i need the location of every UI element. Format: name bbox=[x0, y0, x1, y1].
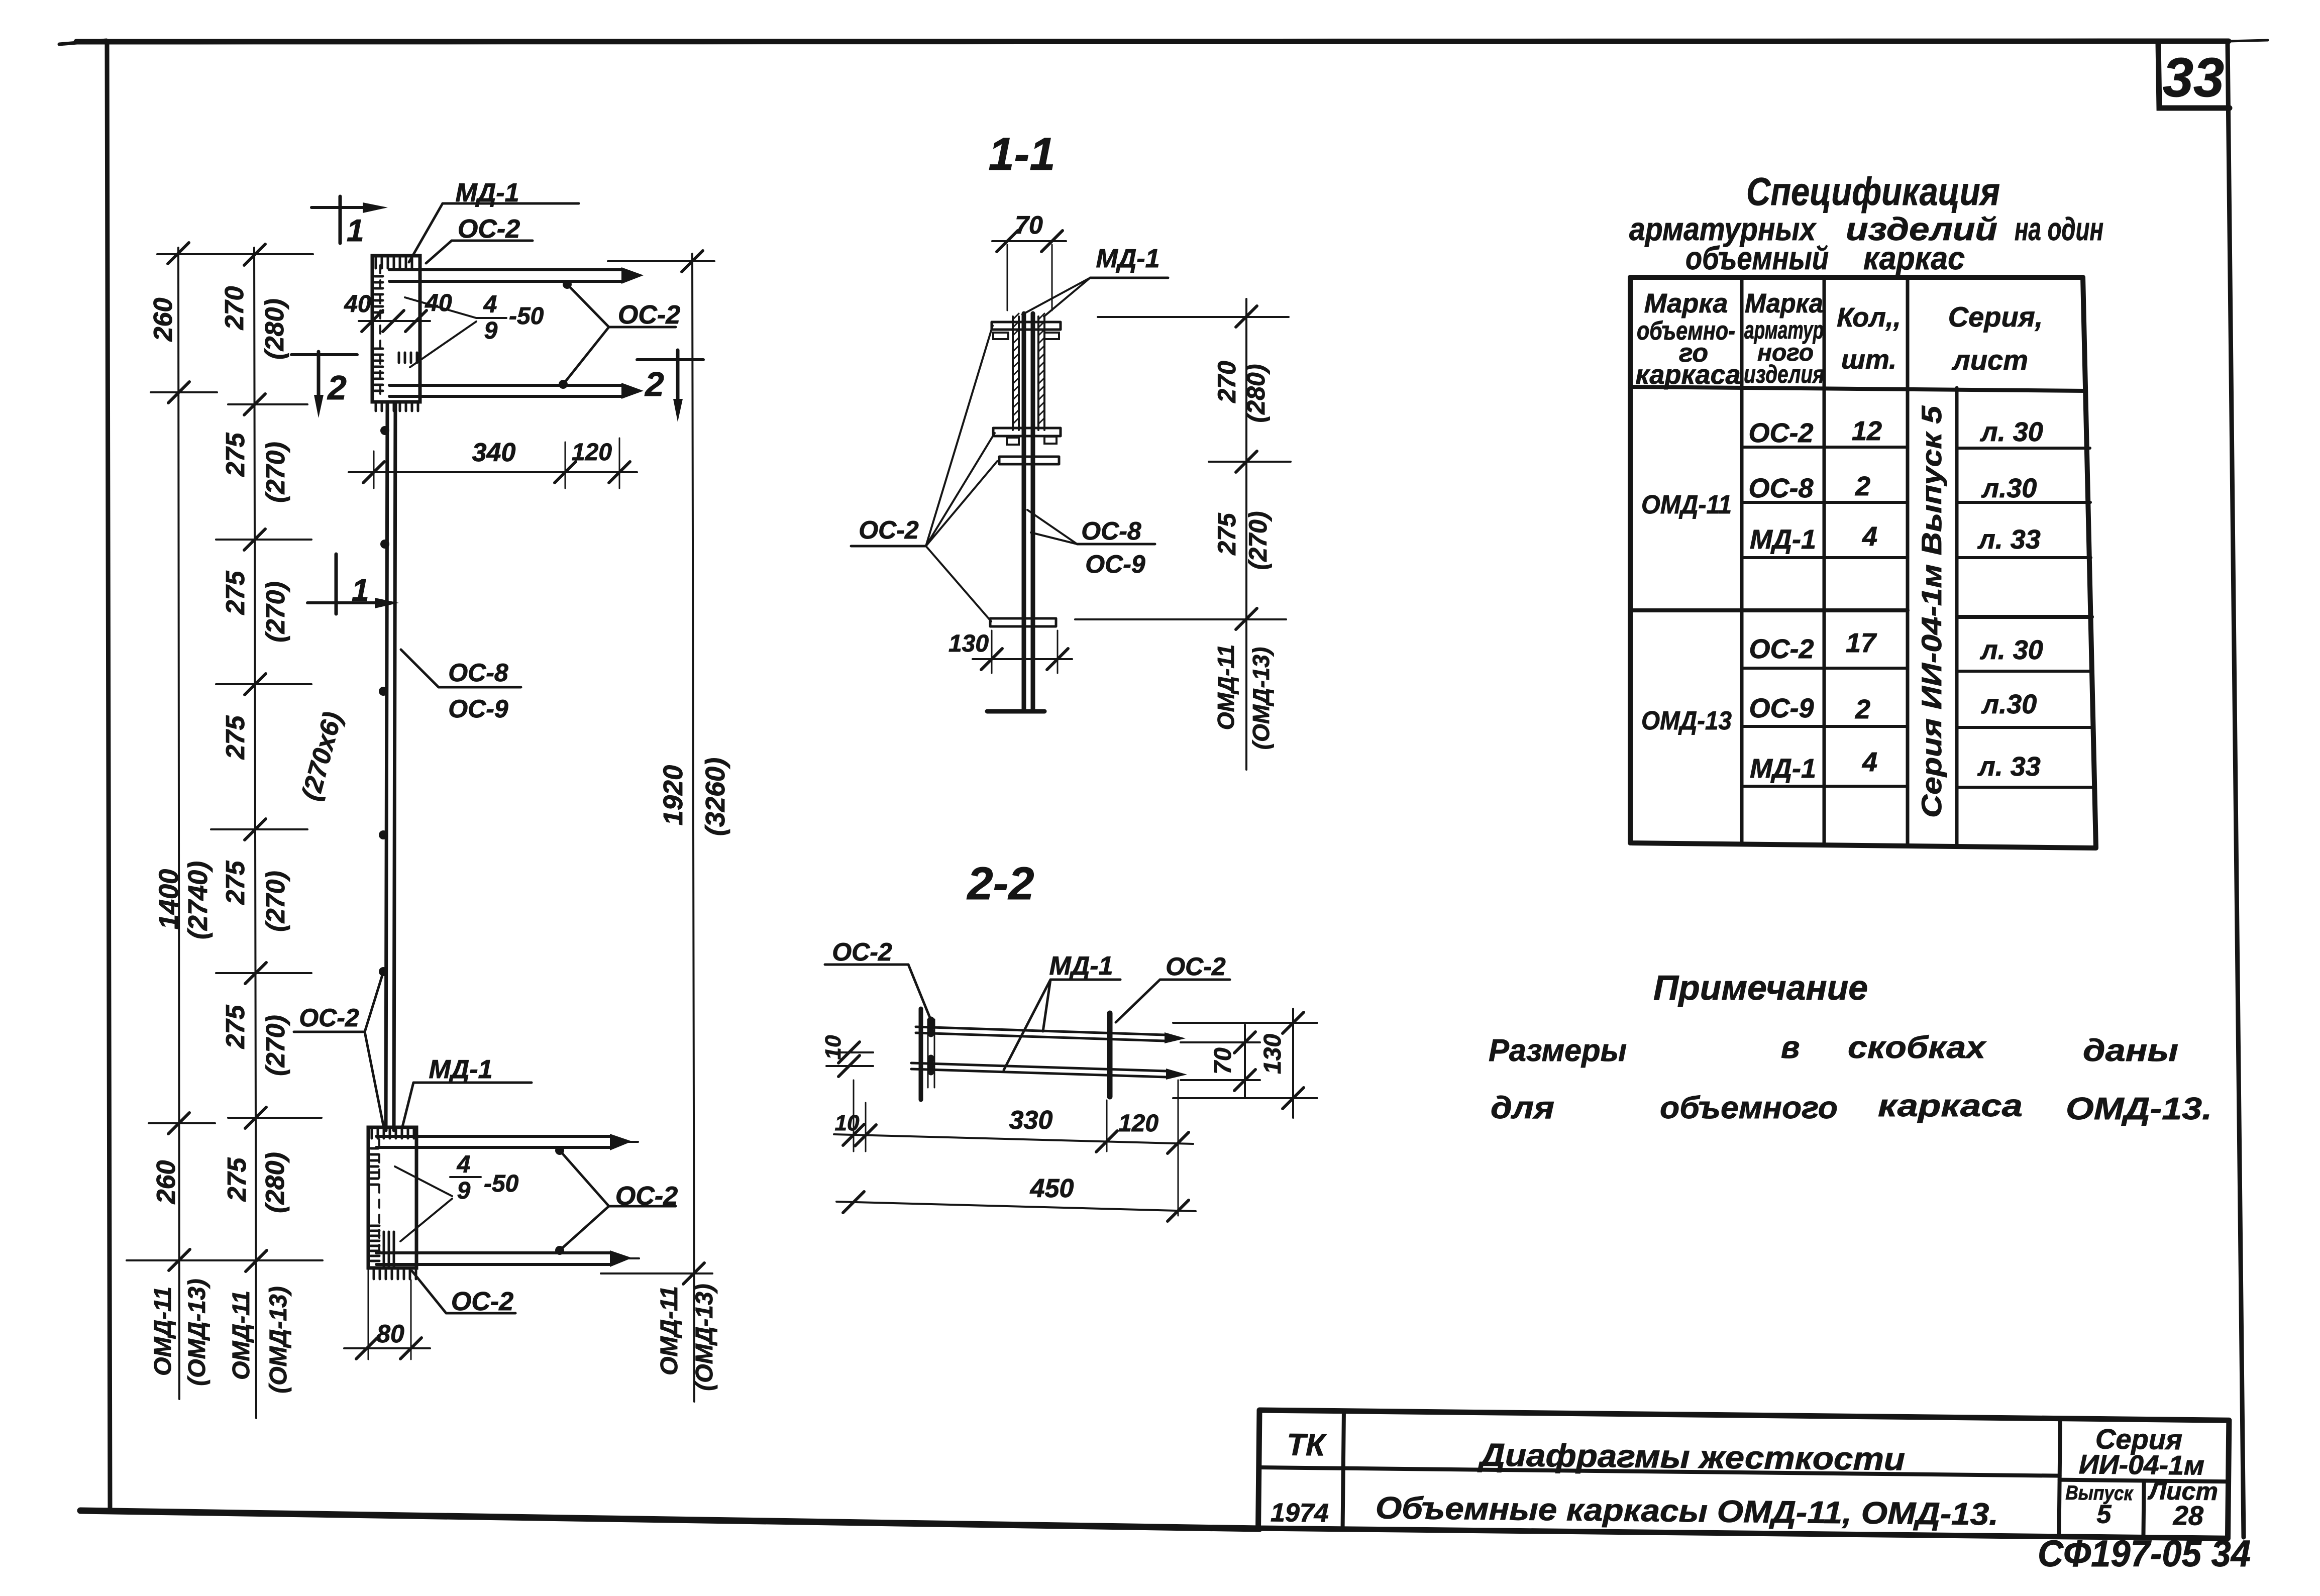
elevation: dimension chain line 2 bbox=[254, 248, 256, 1418]
svg-text:70: 70 bbox=[1210, 1047, 1236, 1075]
dim line 40/40 bbox=[359, 320, 430, 322]
weld hatch below bottom strip bbox=[376, 401, 418, 411]
svg-text:10: 10 bbox=[821, 1035, 846, 1059]
svg-text:120: 120 bbox=[572, 439, 612, 466]
svg-text:ОМД-13.: ОМД-13. bbox=[2066, 1092, 2212, 1126]
svg-text:(ОМД-13): (ОМД-13) bbox=[184, 1279, 210, 1386]
svg-text:2: 2 bbox=[644, 365, 664, 403]
svg-text:(280): (280) bbox=[1242, 364, 1270, 423]
svg-text:ОС-9: ОС-9 bbox=[1085, 550, 1145, 578]
svg-text:объемного: объемного bbox=[1660, 1091, 1838, 1125]
section 1-1 right chain bbox=[1245, 299, 1247, 770]
MD-1 plate right (hatched) bbox=[1038, 316, 1044, 430]
svg-text:1400: 1400 bbox=[154, 869, 184, 929]
top bracket MD-1 channel outline bbox=[372, 256, 420, 402]
title block row dividers bbox=[1259, 1467, 2229, 1481]
svg-text:ОС-2: ОС-2 bbox=[618, 300, 680, 330]
top extension to dim line bbox=[608, 260, 714, 262]
svg-text:ОС-2: ОС-2 bbox=[451, 1287, 513, 1316]
top plate tabs bbox=[993, 333, 1059, 339]
svg-text:2: 2 bbox=[1855, 694, 1870, 724]
section mark 1 top bbox=[339, 196, 342, 243]
svg-text:5: 5 bbox=[2096, 1500, 2112, 1529]
svg-text:1974: 1974 bbox=[1271, 1498, 1329, 1528]
svg-text:330: 330 bbox=[1009, 1106, 1053, 1135]
svg-text:1920: 1920 bbox=[658, 765, 688, 825]
title block verticals bbox=[1343, 1411, 2145, 1538]
section mark 1 lower bbox=[335, 554, 338, 614]
bottom plate bbox=[990, 618, 1056, 626]
spec table column lines bbox=[1742, 277, 1957, 846]
spec table row lines bbox=[1742, 447, 2090, 448]
svg-text:275: 275 bbox=[223, 1157, 252, 1202]
svg-text:40: 40 bbox=[344, 291, 371, 317]
svg-text:ОС-2: ОС-2 bbox=[1166, 952, 1226, 981]
svg-text:шт.: шт. bbox=[1841, 345, 1896, 375]
chain1 tick y504 bbox=[168, 243, 189, 264]
svg-text:л.30: л.30 bbox=[1981, 689, 2037, 719]
svg-text:28: 28 bbox=[2173, 1501, 2204, 1531]
svg-text:л. 30: л. 30 bbox=[1979, 417, 2043, 447]
svg-text:260: 260 bbox=[152, 1160, 181, 1205]
svg-text:4: 4 bbox=[1862, 747, 1877, 777]
svg-text:л. 33: л. 33 bbox=[1977, 524, 2041, 555]
svg-text:ОМД-11: ОМД-11 bbox=[228, 1291, 255, 1380]
svg-text:лист: лист bbox=[1951, 344, 2028, 376]
svg-text:(3260): (3260) bbox=[700, 758, 730, 836]
svg-text:ОС-8: ОС-8 bbox=[1748, 473, 1813, 503]
overall dim line 1920 bbox=[692, 254, 694, 1402]
svg-text:275: 275 bbox=[221, 861, 250, 905]
svg-text:9: 9 bbox=[484, 317, 498, 344]
svg-text:МД-1: МД-1 bbox=[1096, 244, 1159, 273]
svg-text:л.30: л.30 bbox=[1981, 473, 2037, 503]
bottom extension line bbox=[127, 1259, 323, 1261]
svg-text:40: 40 bbox=[425, 290, 452, 316]
svg-text:270: 270 bbox=[1213, 361, 1241, 403]
weld hatch left strip bbox=[371, 1148, 378, 1185]
weld hatch mid tab bbox=[399, 353, 417, 363]
svg-text:(270): (270) bbox=[261, 581, 290, 642]
svg-text:275: 275 bbox=[1213, 512, 1241, 556]
svg-text:2: 2 bbox=[327, 369, 347, 407]
bottom end rod bbox=[987, 709, 1044, 714]
svg-text:Марка: Марка bbox=[1745, 288, 1823, 318]
svg-text:ОС-8: ОС-8 bbox=[448, 659, 508, 687]
elevation: dimension chain line 1 bbox=[178, 248, 179, 1399]
svg-text:1-1: 1-1 bbox=[989, 129, 1056, 180]
svg-text:450: 450 bbox=[1030, 1174, 1074, 1203]
rod dot y1083 bbox=[380, 540, 389, 549]
svg-text:на один: на один bbox=[2015, 211, 2103, 247]
rod OC-2 in section bbox=[999, 457, 1059, 464]
chain2 tick y1362 bbox=[245, 674, 266, 695]
svg-text:(ОМД-13): (ОМД-13) bbox=[1248, 647, 1274, 750]
2-2 top rod OC-2 bbox=[916, 1027, 1165, 1041]
svg-text:70: 70 bbox=[1015, 211, 1043, 239]
middle plate bbox=[993, 428, 1061, 436]
2-2 left MD-1 plate bbox=[919, 1009, 923, 1100]
bottom bracket rod OC-2 upper bbox=[376, 1136, 610, 1147]
2-2 bottom rod OC-2 bbox=[911, 1063, 1166, 1077]
weld hatch lower mid blob bbox=[384, 1232, 394, 1266]
section mark 2 left bbox=[317, 352, 321, 398]
svg-text:ОМД-13: ОМД-13 bbox=[1641, 706, 1732, 735]
svg-text:ОС-9: ОС-9 bbox=[1749, 693, 1814, 723]
svg-text:275: 275 bbox=[221, 1005, 250, 1049]
svg-text:для: для bbox=[1491, 1091, 1554, 1125]
svg-text:Серия,: Серия, bbox=[1948, 301, 2043, 333]
chain1 tick y781 bbox=[168, 382, 189, 403]
spec table outer border bbox=[1630, 277, 2096, 848]
MD-1 plate left (hatched) bbox=[1013, 316, 1019, 430]
svg-text:ОС-2: ОС-2 bbox=[859, 516, 919, 544]
section mark 2 right bbox=[676, 350, 680, 402]
svg-text:130: 130 bbox=[948, 630, 989, 657]
svg-text:МД-1: МД-1 bbox=[1750, 524, 1816, 555]
svg-text:МД-1: МД-1 bbox=[1750, 754, 1816, 784]
svg-text:4: 4 bbox=[457, 1151, 471, 1178]
rod dot y857 bbox=[380, 426, 389, 435]
middle plate tabs bbox=[1007, 437, 1057, 445]
svg-text:ОС-8: ОС-8 bbox=[1081, 517, 1141, 545]
svg-text:л. 30: л. 30 bbox=[1979, 635, 2043, 665]
top bracket rod OC-2 upper bbox=[389, 270, 621, 281]
chain1 tick y2507 bbox=[169, 1249, 190, 1270]
bottom bracket MD-1 channel outline bbox=[368, 1127, 416, 1268]
weld hatch top strip bbox=[372, 1129, 414, 1138]
spec table OMD divider bbox=[1632, 610, 2092, 617]
svg-text:л. 33: л. 33 bbox=[1977, 752, 2041, 782]
svg-text:33: 33 bbox=[2163, 47, 2224, 109]
svg-text:каркас: каркас bbox=[1863, 240, 1965, 276]
svg-text:МД-1: МД-1 bbox=[429, 1055, 492, 1084]
svg-text:изделия: изделия bbox=[1744, 360, 1824, 388]
svg-text:СФ197-05 34: СФ197-05 34 bbox=[2038, 1533, 2251, 1574]
svg-text:Объемные каркасы ОМД-11, ОМД: Объемные каркасы ОМД-11, ОМД-13. bbox=[1376, 1491, 1999, 1532]
svg-text:в: в bbox=[1781, 1030, 1800, 1065]
rod dot y1934 bbox=[379, 967, 388, 976]
svg-text:260: 260 bbox=[149, 298, 178, 342]
dim line 340/120 bbox=[349, 471, 637, 473]
svg-text:ОМД-11: ОМД-11 bbox=[656, 1286, 683, 1375]
weld hatch left lower strip bbox=[375, 349, 383, 391]
svg-text:Кол,,: Кол,, bbox=[1837, 302, 1901, 333]
svg-text:-50: -50 bbox=[484, 1171, 519, 1197]
svg-text:4: 4 bbox=[1862, 521, 1877, 552]
chain2 tick y805 bbox=[244, 394, 265, 415]
svg-text:-50: -50 bbox=[509, 303, 544, 330]
svg-text:ОС-2: ОС-2 bbox=[832, 938, 892, 966]
sheet number box bbox=[2158, 43, 2230, 108]
top bracket hidden plate dashed line bbox=[379, 265, 381, 396]
rod dot y1662 bbox=[379, 830, 388, 839]
svg-text:9: 9 bbox=[457, 1178, 471, 1204]
svg-text:(270): (270) bbox=[261, 442, 290, 502]
2-2 right dims 70/130 bbox=[1173, 1023, 1317, 1098]
bottom extension to dim line bbox=[601, 1272, 712, 1274]
top extension line bbox=[157, 253, 313, 255]
top plate bbox=[992, 322, 1061, 330]
svg-text:(2740): (2740) bbox=[183, 861, 213, 939]
svg-text:скобках: скобках bbox=[1848, 1030, 1987, 1065]
svg-text:2: 2 bbox=[1855, 471, 1870, 501]
svg-text:объемный: объемный bbox=[1685, 240, 1829, 276]
svg-text:Спецификация: Спецификация bbox=[1746, 169, 2000, 214]
svg-text:Размеры: Размеры bbox=[1489, 1033, 1627, 1068]
svg-text:Серия ИИ-04-1м Выпуск 5: Серия ИИ-04-1м Выпуск 5 bbox=[1916, 405, 1947, 818]
svg-text:(280): (280) bbox=[261, 1152, 290, 1213]
page frame left border bbox=[107, 41, 110, 1511]
svg-text:ОС-2: ОС-2 bbox=[458, 215, 520, 244]
svg-text:каркаса: каркаса bbox=[1635, 360, 1740, 390]
page frame right border bbox=[2228, 42, 2244, 1537]
chain2 tick y1074 bbox=[244, 529, 265, 550]
page frame top border bbox=[76, 41, 2229, 42]
page frame bottom border bbox=[80, 1511, 1259, 1529]
svg-text:ОМД-11: ОМД-11 bbox=[1641, 490, 1732, 519]
column bars OC-8/OC-9 bbox=[1024, 313, 1033, 710]
svg-text:1: 1 bbox=[352, 573, 369, 608]
svg-text:Диафрагмы жесткости: Диафрагмы жесткости bbox=[1477, 1437, 1905, 1477]
svg-text:275: 275 bbox=[221, 715, 250, 760]
svg-text:1: 1 bbox=[347, 214, 364, 248]
rod dot y1376 bbox=[379, 687, 388, 696]
svg-text:(ОМД-13): (ОМД-13) bbox=[265, 1286, 292, 1393]
top bracket rod OC-2 lower bbox=[389, 385, 621, 396]
svg-text:120: 120 bbox=[1118, 1110, 1158, 1137]
chain1 tick y2234 bbox=[168, 1113, 189, 1134]
weld hatch below bottom strip bbox=[374, 1269, 416, 1279]
svg-text:ОС-2: ОС-2 bbox=[1749, 634, 1814, 664]
svg-text:(280): (280) bbox=[260, 298, 289, 359]
svg-text:ОС-2: ОС-2 bbox=[1748, 418, 1813, 448]
svg-text:2-2: 2-2 bbox=[967, 858, 1034, 909]
svg-text:275: 275 bbox=[221, 571, 250, 615]
chain2 tick y507 bbox=[244, 244, 265, 265]
svg-text:275: 275 bbox=[221, 433, 250, 477]
plank OC-8/OC-9 double line bbox=[386, 402, 395, 1130]
weld hatch left upper strip bbox=[375, 276, 383, 312]
svg-text:(270): (270) bbox=[261, 1015, 290, 1076]
svg-text:17: 17 bbox=[1846, 628, 1877, 658]
svg-text:(270): (270) bbox=[261, 871, 290, 931]
chain2 tick y1651 bbox=[245, 819, 266, 840]
bottom bracket dashed hidden line bbox=[378, 1139, 380, 1258]
svg-text:ТК: ТК bbox=[1287, 1428, 1327, 1463]
weld hatch top strip bbox=[376, 258, 412, 268]
spec table header bottom line bbox=[1630, 387, 2085, 391]
svg-text:80: 80 bbox=[376, 1320, 404, 1348]
svg-text:340: 340 bbox=[472, 438, 516, 467]
2-2 right MD-1 plate bbox=[1107, 1013, 1113, 1097]
title block outer bbox=[1258, 1410, 2229, 1538]
svg-text:270: 270 bbox=[220, 286, 249, 331]
svg-text:4: 4 bbox=[483, 291, 497, 318]
weld hatch lower left blob bbox=[371, 1226, 379, 1261]
svg-text:Примечание: Примечание bbox=[1653, 968, 1868, 1007]
chain2 tick y2510 bbox=[246, 1250, 267, 1271]
svg-text:130: 130 bbox=[1259, 1034, 1286, 1074]
svg-text:ОС-9: ОС-9 bbox=[448, 695, 508, 723]
svg-text:ОМД-11: ОМД-11 bbox=[150, 1287, 176, 1376]
svg-text:(270): (270) bbox=[1244, 511, 1272, 570]
svg-text:даны: даны bbox=[2083, 1033, 2178, 1068]
svg-text:МД-1: МД-1 bbox=[1049, 951, 1113, 981]
chain2 tick y2225 bbox=[245, 1107, 266, 1128]
svg-text:каркаса: каркаса bbox=[1878, 1089, 2023, 1123]
svg-text:Марка: Марка bbox=[1644, 288, 1728, 318]
2-2 weld plate with hatch bbox=[928, 1019, 934, 1088]
chain2 tick y1937 bbox=[245, 963, 266, 984]
bottom bracket rod OC-2 lower bbox=[376, 1253, 610, 1264]
svg-text:(ОМД-13): (ОМД-13) bbox=[691, 1284, 718, 1391]
svg-text:12: 12 bbox=[1852, 416, 1882, 446]
svg-text:ИИ-04-1м: ИИ-04-1м bbox=[2079, 1449, 2205, 1481]
svg-text:ОС-2: ОС-2 bbox=[299, 1004, 359, 1032]
svg-text:ОМД-11: ОМД-11 bbox=[1213, 645, 1239, 730]
